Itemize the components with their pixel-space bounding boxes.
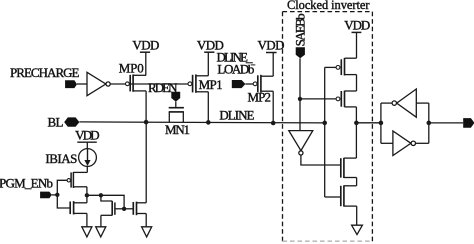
svg-text:VDD: VDD	[258, 38, 285, 53]
inverter U2 (SAEBb inverter, pointing down)	[289, 131, 313, 155]
Clocked inverter title	[287, 0, 370, 12]
VDD symbol above MP2	[258, 38, 285, 77]
wire P1 drain to P2 source	[356, 75, 358, 91]
wire U3 output to left node	[381, 102, 392, 104]
junction DLINE / gate vertical	[322, 121, 327, 126]
wire MN2 source to ground	[86, 213, 88, 226]
wire bias node rail	[87, 195, 124, 209]
DLINE net label	[219, 107, 254, 122]
transistor P1 (clocked inverter top PMOS)	[336, 58, 356, 76]
junction BL/MP0 drain	[144, 120, 149, 125]
wire MP0 drain down to BL node	[145, 91, 147, 122]
wire MP2 drain down to DLINE	[272, 91, 274, 123]
wire U2 output to N1 gate	[301, 155, 340, 165]
wire output to latch	[356, 122, 381, 124]
PRECHARGE label	[10, 65, 80, 80]
wire DLINE gate vertical	[324, 67, 326, 197]
SAEBb signal label (rotated)	[293, 13, 308, 46]
wire IBIAS to MP3 source	[86, 166, 88, 172]
VDD symbol above IBIAS	[75, 128, 100, 149]
ground (clocked inverter)	[352, 225, 363, 234]
svg-text:SAEBb: SAEBb	[293, 13, 308, 46]
VDD symbol above MP0	[132, 38, 159, 76]
transistor MN2 (bias disable NMOS)	[70, 201, 87, 214]
MP0 label	[119, 60, 144, 75]
svg-text:MP2: MP2	[248, 89, 272, 104]
VDD symbol above MP1	[197, 38, 224, 76]
transistor MP3 (bias switch PMOS)	[67, 172, 87, 188]
MN1 label	[165, 122, 190, 137]
wire MP3 gate to PGM_ENb	[57, 180, 67, 195]
DLINE_LOADb signal label	[217, 50, 256, 77]
inverter U1 (precharge buffer)	[87, 72, 110, 95]
BL label	[48, 114, 64, 129]
junction output node	[354, 121, 359, 126]
svg-text:IBIAS: IBIAS	[45, 151, 77, 166]
transistor MN3 (diode-connected mirror NMOS, mirrored)	[101, 195, 124, 227]
svg-text:VDD: VDD	[344, 18, 370, 33]
junction bias node at MP3 drain	[85, 193, 89, 197]
wire N2 gate to DLINE vertical	[325, 196, 340, 198]
junction bias node / MN3 drain	[99, 193, 103, 197]
wire N2 source to ground	[356, 206, 358, 225]
junction SAEBb / P2 gate	[298, 97, 302, 101]
svg-text:BL: BL	[48, 114, 64, 129]
PRECHARGE input pad	[65, 80, 77, 88]
transistor MN1 (NMOS pass gate)	[169, 108, 184, 123]
ground (below MN2)	[82, 227, 92, 237]
ground (below MN4)	[142, 227, 152, 237]
svg-text:VDD: VDD	[75, 128, 100, 143]
wire mirror gate to MN4 gate	[124, 208, 133, 210]
transistor MP0 (PMOS)	[126, 74, 147, 91]
inverter U4 (latch forward, pointing right)	[393, 131, 416, 156]
junction PGM_ENb node	[55, 193, 59, 197]
svg-text:Clocked inverter: Clocked inverter	[287, 0, 370, 12]
transistor MP1 (PMOS)	[188, 74, 208, 92]
output pad	[463, 118, 474, 128]
wire BL / DLINE horizontal	[79, 122, 324, 123]
junction latch input node	[379, 121, 384, 126]
transistor N1 (clocked inverter NMOS, gate SAEB)	[341, 158, 357, 178]
svg-text:PGM_ENb: PGM_ENb	[0, 175, 53, 190]
MP2 label	[248, 89, 272, 104]
wire P1 gate to DLINE vertical	[325, 66, 336, 68]
transistor MN4 (mirror output NMOS)	[133, 202, 146, 216]
wire N1 source to N2 drain	[356, 178, 358, 186]
wire MP3 drain / MN2 drain / bias node	[86, 187, 88, 203]
wire U4 output to right node	[416, 142, 429, 144]
junction mirror gate node	[122, 207, 126, 211]
svg-text:PRECHARGE: PRECHARGE	[10, 65, 80, 80]
junction DLINE/MP1 drain	[206, 120, 211, 125]
svg-text:LOADb: LOADb	[217, 61, 254, 76]
wire SAEBb vertical	[299, 58, 301, 130]
wire SAEBb to P2 gate	[300, 98, 336, 100]
transistor P2 (clocked inverter PMOS, gate SAEBb)	[336, 91, 356, 108]
wire MN4 source to ground	[145, 214, 147, 227]
wire PRECHARGE pad to inverter U1	[77, 83, 87, 85]
wire latch output	[429, 122, 463, 124]
wire MP1 drain down to DLINE	[207, 92, 209, 123]
svg-text:MN1: MN1	[165, 122, 190, 137]
VDD symbol inside box	[344, 18, 370, 59]
PGM_ENb label	[0, 175, 53, 190]
DLINE_LOADb input pad	[232, 80, 253, 88]
svg-text:VDD: VDD	[132, 38, 159, 53]
transistor MP2 (PMOS)	[253, 75, 273, 93]
svg-text:MP0: MP0	[119, 60, 144, 75]
dashed box (clocked inverter boundary)	[283, 12, 373, 242]
wire MN4 drain up to BL node	[145, 122, 147, 203]
junction latch output node	[427, 121, 432, 126]
wire output node vertical	[355, 107, 357, 158]
current source IBIAS	[79, 149, 97, 167]
junction DLINE/MP2 drain	[271, 121, 276, 126]
RDEN label	[148, 80, 178, 95]
wire latch left vertical	[380, 103, 382, 143]
MP1 label	[199, 77, 223, 92]
transistor N2 (clocked inverter NMOS, gate DLINE)	[341, 185, 357, 206]
IBIAS label	[45, 151, 77, 166]
wire U1 output to MP0/MP1 gates	[110, 83, 188, 85]
RDEN pad	[171, 92, 180, 108]
SAEBb input pad	[296, 47, 305, 58]
wire U4 input from left node	[381, 142, 393, 144]
svg-text:DLINE: DLINE	[219, 107, 254, 122]
BL input pad	[64, 117, 79, 126]
ground (below MN3)	[96, 227, 106, 237]
svg-text:MP1: MP1	[199, 77, 223, 92]
wire DLINE output segment to latch	[356, 122, 381, 124]
wire U3 input from right node	[416, 102, 429, 104]
inverter U3 (latch feedback, pointing left)	[392, 89, 416, 117]
wire latch right vertical	[428, 103, 430, 143]
PGM_ENb input pad	[40, 192, 57, 199]
wire PGM_ENb to MN2 gate	[57, 195, 70, 208]
